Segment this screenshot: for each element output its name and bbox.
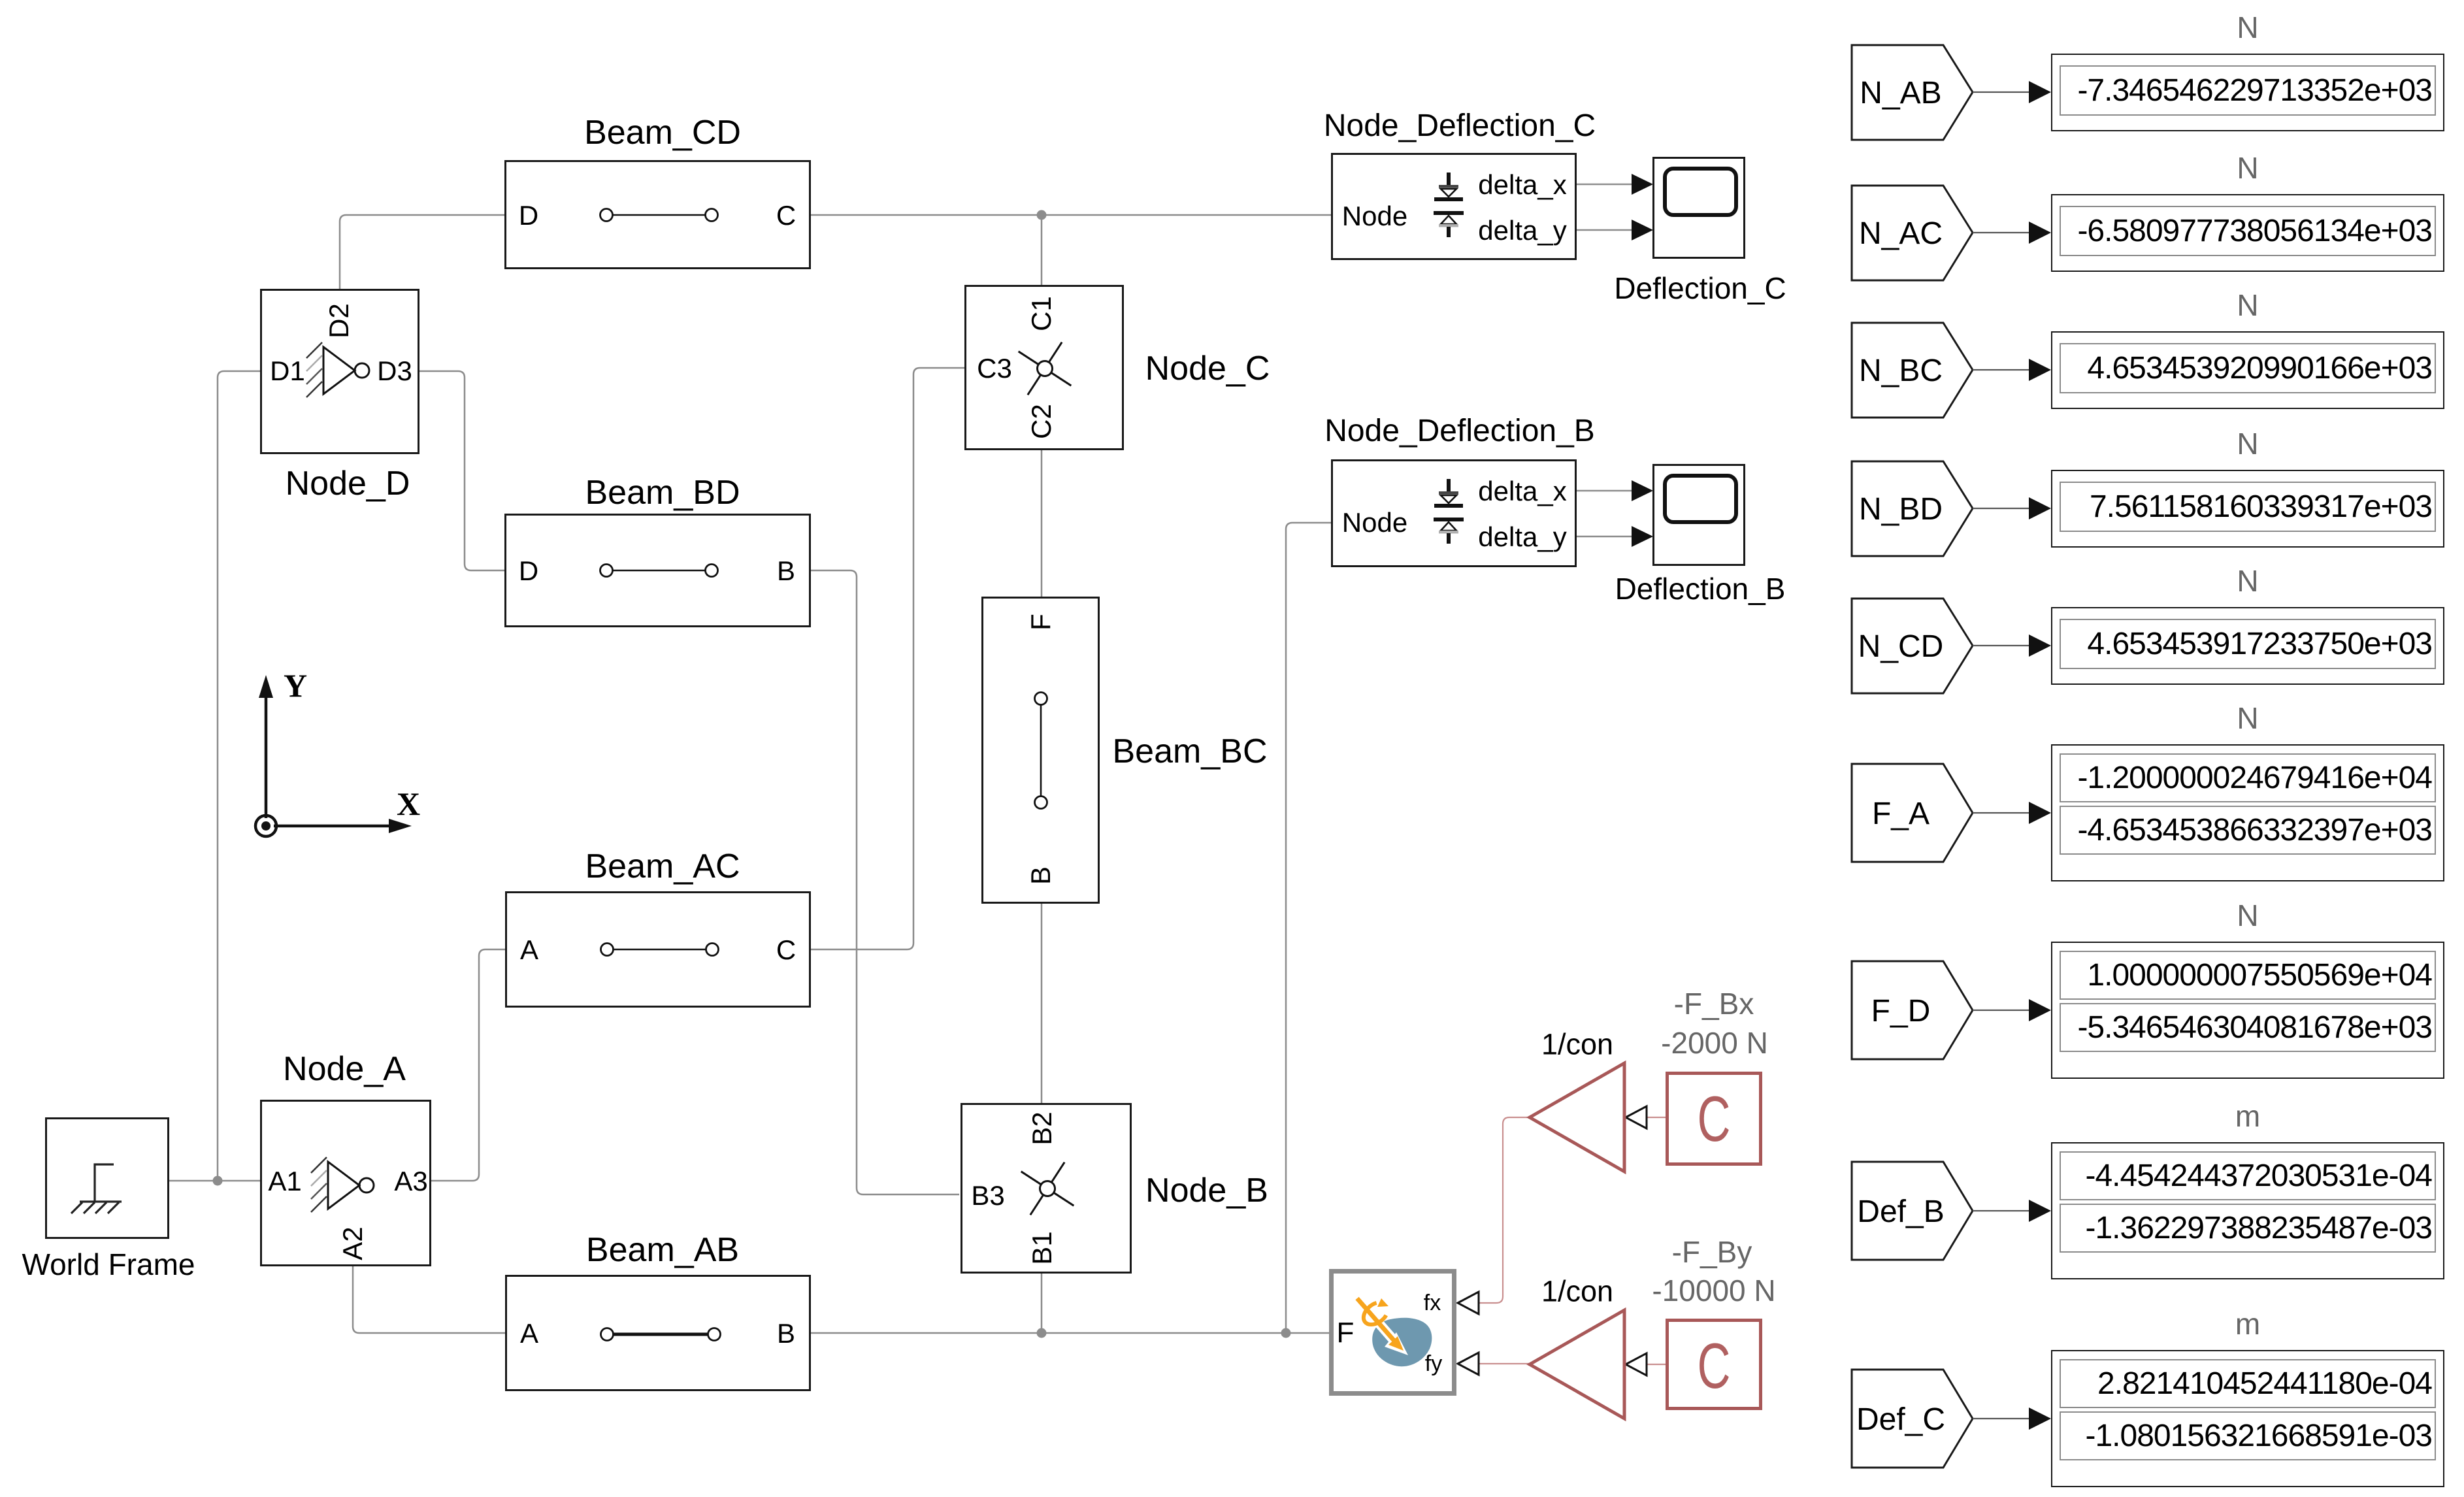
port label B2 (rotated) bbox=[1028, 1111, 1056, 1145]
world frame icon bbox=[71, 1164, 122, 1213]
unit label above display F_A bbox=[2237, 703, 2258, 733]
tag label Def_C bbox=[1856, 1404, 1945, 1436]
wire constant -F_Bx to gain bbox=[1646, 1117, 1666, 1118]
port label delta_y of Node_Deflection_B bbox=[1478, 523, 1566, 551]
port label A3 bbox=[394, 1168, 427, 1195]
display for N_AC bbox=[2051, 194, 2444, 272]
label -2000 N bbox=[1661, 1028, 1768, 1058]
label Node_C bbox=[1145, 352, 1270, 386]
label Beam_CD bbox=[584, 116, 741, 150]
port label D1 bbox=[270, 357, 305, 385]
label Deflection_B bbox=[1615, 574, 1786, 604]
junction dot deflection B tap bbox=[1281, 1328, 1291, 1338]
display inner field Def_C bbox=[2060, 1359, 2436, 1408]
label -F_Bx bbox=[1674, 989, 1754, 1019]
Node_A support icon bbox=[328, 1162, 374, 1209]
input port arrow at gain 1/con upper bbox=[1626, 1106, 1647, 1128]
wire Beam_CD C to Node_Deflection_C bbox=[811, 214, 1331, 216]
port label delta_x of Node_Deflection_B bbox=[1478, 478, 1566, 505]
junction dot on Beam_CD C wire bbox=[1037, 210, 1047, 220]
display for Def_B bbox=[2051, 1142, 2444, 1279]
block external force block bbox=[1329, 1269, 1456, 1396]
port label fx bbox=[1424, 1292, 1441, 1314]
wire Node_Deflection_C delta_x to scope bbox=[1577, 184, 1634, 186]
label Beam_AC bbox=[585, 849, 740, 883]
tag label N_BD bbox=[1859, 494, 1943, 525]
port label B3 bbox=[971, 1182, 1004, 1209]
junction dot at World Frame output bbox=[213, 1176, 223, 1186]
Beam_AC pin-rod icon bbox=[601, 944, 719, 956]
port label delta_y of Node_Deflection_C bbox=[1478, 217, 1566, 244]
Beam_CD pin-rod icon bbox=[600, 209, 718, 222]
port label fy bbox=[1425, 1353, 1442, 1375]
arrowhead into scope Deflection_B input 2 bbox=[1632, 526, 1653, 547]
block Node_D bbox=[260, 289, 419, 454]
constant C glyph lower bbox=[1698, 1334, 1731, 1398]
Node_Deflection_B icon bbox=[1434, 479, 1464, 544]
block Node_C bbox=[964, 285, 1124, 450]
display for F_D bbox=[2051, 942, 2444, 1079]
tag label N_CD bbox=[1858, 631, 1944, 663]
input port arrow at gain 1/con lower bbox=[1626, 1353, 1647, 1375]
block Beam_AB bbox=[505, 1275, 811, 1391]
display for N_AB bbox=[2051, 54, 2444, 131]
wire Beam_AC C to Node_C C3 bbox=[811, 368, 964, 949]
label -10000 N bbox=[1652, 1275, 1775, 1306]
port label B1 (rotated) bbox=[1028, 1231, 1056, 1264]
gain block 1/con upper bbox=[1530, 1063, 1624, 1172]
display inner field N_AC bbox=[2060, 206, 2436, 256]
wire Node_A A2 to Beam_AB A bbox=[353, 1266, 505, 1333]
scope Deflection_C screen icon bbox=[1665, 169, 1736, 215]
Beam_AB pin-rod icon (bold) bbox=[601, 1328, 721, 1341]
block constant -F_Bx bbox=[1666, 1072, 1762, 1166]
unit label above display N_BD bbox=[2237, 429, 2258, 459]
port label C1 (rotated) bbox=[1028, 296, 1055, 331]
label Node_D bbox=[286, 467, 410, 501]
label Node_Deflection_C bbox=[1324, 110, 1596, 142]
wire gain 1/con to force fy bbox=[1479, 1363, 1530, 1364]
display inner field F_D bbox=[2060, 951, 2436, 1000]
wire Node_Deflection_C delta_y to scope bbox=[1577, 229, 1634, 231]
unit label above display Def_C bbox=[2235, 1309, 2260, 1339]
port label A of Beam_AB bbox=[520, 1320, 538, 1347]
Beam_BD pin-rod icon bbox=[600, 565, 718, 577]
wire junction to Node_Deflection_B bbox=[1286, 523, 1331, 1333]
Node_C pin icon bbox=[1019, 342, 1072, 395]
display for N_BC bbox=[2051, 331, 2444, 409]
display inner field Def_C bbox=[2060, 1411, 2436, 1460]
label Deflection_C bbox=[1614, 273, 1786, 303]
port label B of Beam_AB bbox=[777, 1320, 795, 1347]
arrowhead into scope Deflection_C input 1 bbox=[1632, 174, 1653, 195]
wire junction to Node_D D1 bbox=[218, 371, 260, 1181]
port label A2 (rotated) bbox=[339, 1226, 367, 1260]
label Beam_AB bbox=[586, 1233, 739, 1267]
port label B of Beam_BC (rotated) bbox=[1027, 866, 1055, 885]
wire Beam_BC B to Node_B B2 bbox=[1041, 904, 1043, 1104]
axis label X bbox=[397, 787, 420, 820]
label 1/con lower bbox=[1541, 1277, 1613, 1306]
wire Beam_BD B to Node_B B3 bbox=[811, 570, 959, 1194]
display for Def_C bbox=[2051, 1350, 2444, 1487]
tag label F_A bbox=[1872, 798, 1930, 830]
port label F of Beam_BC (rotated) bbox=[1027, 614, 1055, 631]
scope Deflection_B screen icon bbox=[1665, 476, 1736, 522]
display inner field N_BD bbox=[2060, 482, 2436, 532]
port label D of Beam_CD bbox=[519, 202, 538, 229]
wire Node_Deflection_B delta_x to scope bbox=[1577, 490, 1634, 492]
Node_B pin icon bbox=[1021, 1162, 1074, 1215]
block Beam_BC bbox=[981, 597, 1100, 904]
block scope Deflection_B bbox=[1652, 464, 1745, 566]
block Beam_CD bbox=[504, 160, 811, 269]
wire constant -F_By to gain bbox=[1646, 1364, 1666, 1365]
label Node_B bbox=[1145, 1174, 1268, 1208]
wire Node_B B1 to junction bbox=[1041, 1272, 1043, 1333]
arrowhead into scope Deflection_C input 2 bbox=[1632, 220, 1653, 240]
port label C of Beam_CD bbox=[776, 202, 796, 229]
wire gain 1/con to force fx bbox=[1479, 1117, 1530, 1303]
label Beam_BC bbox=[1113, 734, 1268, 768]
port label D2 (rotated) bbox=[325, 303, 353, 338]
port label C2 (rotated) bbox=[1028, 404, 1055, 439]
block World Frame bbox=[45, 1117, 169, 1239]
wire Node_D D3 to Beam_BD D bbox=[419, 371, 504, 570]
unit label above display N_AB bbox=[2237, 12, 2258, 42]
label -F_By bbox=[1672, 1237, 1752, 1267]
wire Beam_AB B to force block F bbox=[811, 1332, 1329, 1334]
input port arrow at force fy bbox=[1458, 1353, 1479, 1375]
port label Node of Node_Deflection_B bbox=[1342, 509, 1407, 536]
junction dot Node_B B1 bbox=[1037, 1328, 1047, 1338]
display for F_A bbox=[2051, 744, 2444, 881]
tag label F_D bbox=[1871, 996, 1931, 1027]
wire Node_Deflection_B delta_y to scope bbox=[1577, 536, 1634, 538]
block Node_A bbox=[260, 1100, 431, 1266]
block Node_B bbox=[961, 1103, 1132, 1274]
block Beam_BD bbox=[504, 514, 811, 627]
port label C of Beam_AC bbox=[776, 936, 796, 964]
port label D3 bbox=[377, 357, 412, 385]
unit label above display N_AC bbox=[2237, 153, 2258, 183]
gain block 1/con lower bbox=[1530, 1310, 1624, 1419]
block Beam_AC bbox=[505, 891, 811, 1008]
label World Frame bbox=[22, 1249, 195, 1279]
Beam_BC pin-rod icon (vertical) bbox=[1035, 693, 1047, 809]
display for N_BD bbox=[2051, 470, 2444, 548]
label 1/con upper bbox=[1541, 1030, 1613, 1059]
port label A of Beam_AC bbox=[520, 936, 538, 964]
tag label Def_B bbox=[1857, 1196, 1944, 1228]
unit label above display F_D bbox=[2237, 900, 2258, 930]
label Node_A bbox=[283, 1052, 406, 1086]
display inner field F_A bbox=[2060, 753, 2436, 802]
wire Node_C C2 to Beam_BC F bbox=[1041, 450, 1043, 597]
port label A1 bbox=[268, 1168, 301, 1195]
label Node_Deflection_B bbox=[1324, 416, 1595, 447]
port label C3 bbox=[977, 355, 1012, 382]
wire Node_D D2 to Beam_CD D bbox=[340, 215, 504, 289]
input port arrow at force fx bbox=[1458, 1292, 1479, 1314]
arrowhead into scope Deflection_B input 1 bbox=[1632, 480, 1653, 501]
port label F of force block bbox=[1337, 1319, 1355, 1347]
unit label above display N_BC bbox=[2237, 290, 2258, 320]
force block icon bbox=[1357, 1298, 1432, 1366]
port label D of Beam_BD bbox=[519, 557, 538, 585]
display inner field F_A bbox=[2060, 806, 2436, 855]
constant C glyph upper bbox=[1698, 1087, 1731, 1151]
unit label above display N_CD bbox=[2237, 566, 2258, 596]
display inner field N_AB bbox=[2060, 65, 2436, 116]
port label delta_x of Node_Deflection_C bbox=[1478, 171, 1566, 199]
block Node_Deflection_B subsystem bbox=[1331, 459, 1577, 567]
port label B of Beam_BD bbox=[777, 557, 795, 585]
display inner field Def_B bbox=[2060, 1204, 2436, 1253]
tag label N_AC bbox=[1859, 218, 1943, 250]
display inner field N_BC bbox=[2060, 343, 2436, 393]
display inner field N_CD bbox=[2060, 619, 2436, 669]
unit label above display Def_B bbox=[2235, 1101, 2260, 1131]
wire World Frame to Node_A A1 bbox=[169, 1180, 260, 1182]
block Node_Deflection_C subsystem bbox=[1331, 153, 1577, 260]
port label Node of Node_Deflection_C bbox=[1342, 203, 1407, 230]
wire Node_A A3 to Beam_AC A bbox=[431, 949, 505, 1181]
Node_D support icon bbox=[323, 347, 369, 394]
display for N_CD bbox=[2051, 607, 2444, 685]
Node_Deflection_C icon bbox=[1434, 173, 1464, 237]
tag label N_AB bbox=[1860, 78, 1941, 109]
wire junction to Node_C C1 bbox=[1041, 215, 1043, 285]
block constant -F_By bbox=[1666, 1319, 1762, 1410]
tag label N_BC bbox=[1859, 355, 1943, 387]
block scope Deflection_C bbox=[1652, 157, 1745, 259]
axis label Y bbox=[284, 669, 307, 702]
label Beam_BD bbox=[585, 476, 740, 510]
display inner field F_D bbox=[2060, 1003, 2436, 1052]
display inner field Def_B bbox=[2060, 1151, 2436, 1200]
